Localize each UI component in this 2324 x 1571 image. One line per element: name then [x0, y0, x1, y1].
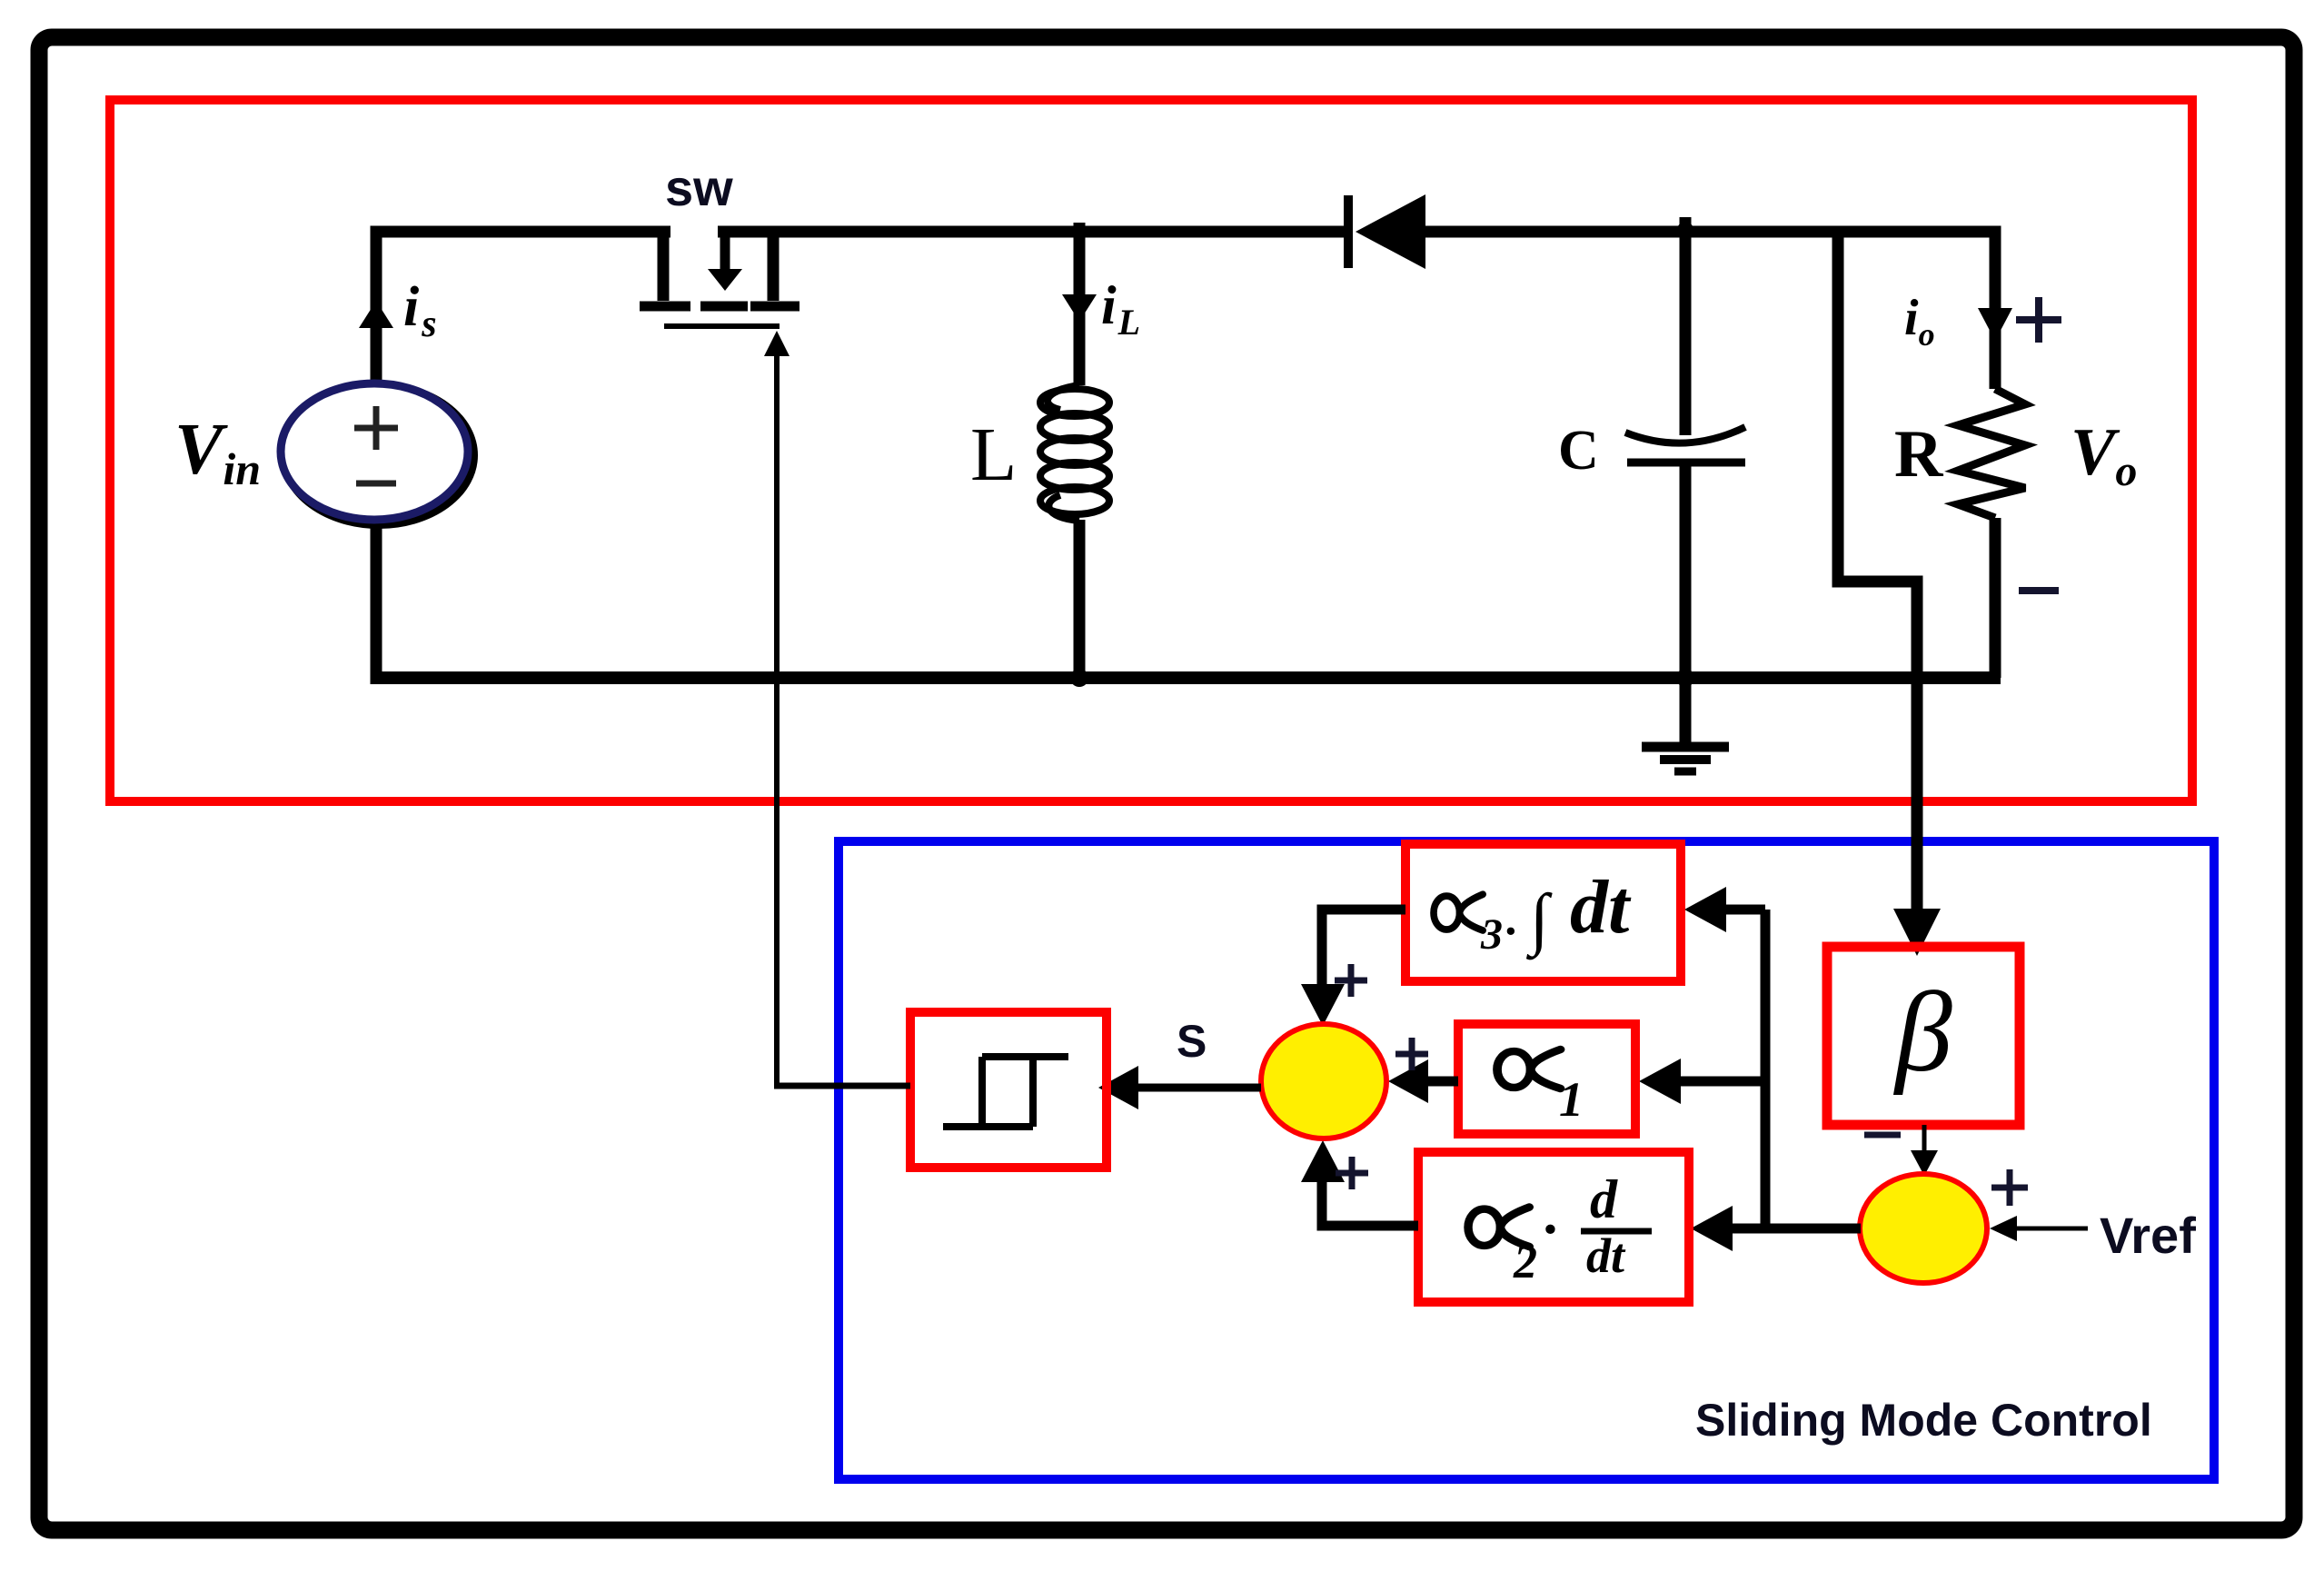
- wire: alpha1 output: [1423, 1077, 1458, 1087]
- arrow S into hysteresis: [1098, 1066, 1138, 1109]
- capacitor C plates: [1625, 427, 1745, 462]
- inductor L coil: [1040, 385, 1109, 521]
- svg-text:3: 3: [1480, 910, 1503, 959]
- wire: bottom rail: [371, 671, 2001, 684]
- wire: top rail from diode to output: [1425, 226, 2001, 238]
- plus sign alpha2 input: [1336, 1157, 1368, 1189]
- wire: feed to alpha1: [1677, 1077, 1765, 1087]
- wire: Vref input: [2010, 1227, 2088, 1231]
- label alpha2: [1468, 1197, 1557, 1288]
- svg-text:dt: dt: [1586, 1228, 1626, 1283]
- wire: alpha2 output: [1322, 1174, 1418, 1226]
- MOSFET SW drain stub: [640, 232, 690, 306]
- plus sign alpha3 input: [1335, 964, 1367, 997]
- plus sign Vo: [2016, 297, 2061, 343]
- arrow is (source current): [359, 301, 393, 328]
- svg-text:R: R: [1894, 417, 1944, 492]
- arrow Vref: [1990, 1216, 2017, 1241]
- svg-text:dt: dt: [1570, 865, 1632, 950]
- arrow into alpha2 block: [1691, 1206, 1733, 1251]
- svg-text:·: ·: [1543, 1197, 1557, 1261]
- MOSFET SW source stub: [750, 232, 799, 306]
- summing node 1: [1261, 1024, 1386, 1138]
- arrow into alpha3 block: [1684, 887, 1726, 932]
- plus sign at Vref input: [1991, 1169, 2028, 1206]
- label d over dt: [1581, 1169, 1652, 1283]
- diode D triangle: [1356, 194, 1425, 269]
- junction node at capacitor bottom: [1676, 669, 1694, 687]
- svg-text:Vref: Vref: [2100, 1207, 2196, 1264]
- wire: inductor bottom lead: [1074, 520, 1086, 678]
- junction node at capacitor top: [1677, 222, 1693, 238]
- wire: Vin negative down to bottom rail: [371, 520, 382, 678]
- wire: top rail from switch to diode: [718, 226, 1345, 238]
- arrow alpha2 to summing node 1: [1301, 1140, 1345, 1182]
- wire: Vin positive to top rail to MOSFET drain: [371, 232, 671, 385]
- svg-text:·: ·: [1505, 906, 1516, 958]
- wire: S output of summing node: [1136, 1084, 1261, 1092]
- gain block alpha3 integrator: [1405, 844, 1681, 981]
- wire: capacitor top lead: [1680, 217, 1692, 435]
- svg-text:∫: ∫: [1526, 880, 1553, 960]
- svg-text:L: L: [970, 413, 1017, 497]
- resistor R zigzag: [1958, 389, 2025, 518]
- svg-text:C: C: [1558, 420, 1599, 482]
- arrow into beta block: [1893, 909, 1941, 956]
- MOSFET SW middle stub with arrow: [700, 237, 748, 306]
- label alpha3 dt: [1434, 865, 1632, 960]
- arrow io: [1978, 308, 2012, 341]
- wire: inductor top lead: [1074, 223, 1086, 385]
- arrow beta output: [1911, 1150, 1938, 1176]
- gain block beta: [1827, 947, 2020, 1125]
- svg-text:β: β: [1892, 969, 1952, 1096]
- svg-text:d: d: [1590, 1169, 1618, 1229]
- plus sign alpha1 input: [1395, 1038, 1428, 1070]
- svg-text:Sliding Mode Control: Sliding Mode Control: [1695, 1395, 2152, 1446]
- sliding mode control boundary box: [839, 841, 2214, 1479]
- wire: feedback bus vertical: [1761, 910, 1771, 1228]
- arrow iL: [1062, 294, 1097, 322]
- arrow alpha1 to summing node 1: [1388, 1059, 1428, 1103]
- wire: error signal line: [1728, 1224, 1861, 1234]
- minus sign at beta output: [1864, 1132, 1901, 1138]
- wire: load branch top: [1990, 226, 2001, 389]
- junction node at inductor top: [1071, 224, 1088, 240]
- summing node 2: [1860, 1174, 1987, 1283]
- svg-text:sw: sw: [665, 159, 733, 216]
- wire: capacitor bottom lead: [1680, 462, 1692, 678]
- wire: hysteresis output to gate: [774, 1083, 910, 1089]
- junction node at inductor bottom: [1070, 669, 1088, 687]
- wire: gate drive line: [774, 356, 780, 1086]
- wire: beta to summing node: [1922, 1125, 1927, 1156]
- gain block alpha1: [1458, 1024, 1635, 1134]
- wire: load branch bottom: [1990, 518, 2001, 678]
- arrow into alpha1 block: [1639, 1059, 1681, 1104]
- hysteresis block: [910, 1012, 1107, 1168]
- MOSFET SW gate bar: [664, 323, 780, 329]
- svg-text:2: 2: [1513, 1237, 1537, 1288]
- hysteresis symbol: [943, 1057, 1068, 1127]
- diode D cathode bar: [1344, 195, 1353, 268]
- gain block alpha2 differentiator: [1418, 1152, 1689, 1302]
- svg-text:S: S: [1177, 1016, 1207, 1067]
- label alpha1: [1497, 1049, 1584, 1127]
- gate drive arrow: [764, 331, 790, 356]
- minus sign Vo: [2019, 587, 2059, 594]
- wire: feed to alpha3: [1719, 905, 1765, 915]
- svg-text:1: 1: [1559, 1072, 1584, 1127]
- wire: alpha3 output: [1322, 910, 1405, 992]
- wire: Vo sense branch from top rail: [1838, 232, 1917, 912]
- arrow alpha3 to summing node 1: [1301, 984, 1345, 1026]
- ground: [1642, 678, 1729, 771]
- power stage boundary box: [110, 100, 2192, 801]
- voltage source Vin: [281, 383, 473, 524]
